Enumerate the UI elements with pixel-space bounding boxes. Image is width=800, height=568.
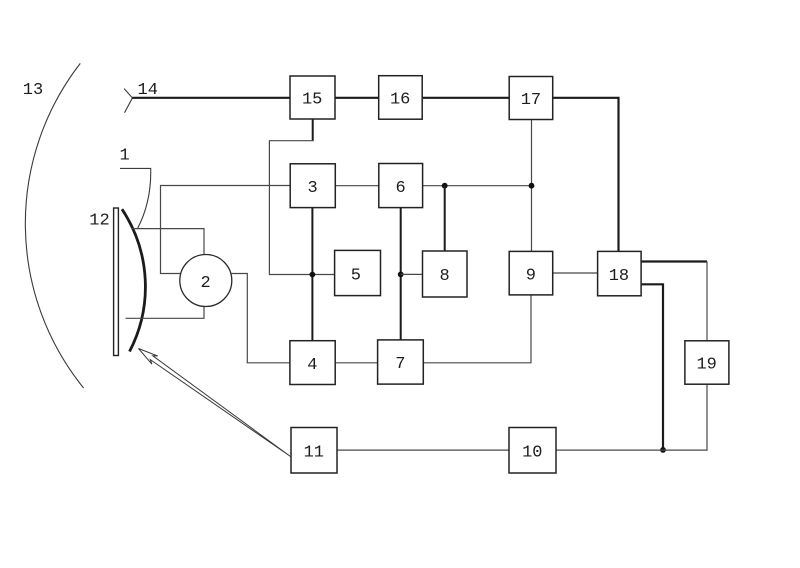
svg-text:4: 4: [307, 356, 317, 375]
svg-text:12: 12: [89, 212, 109, 231]
block 9: [509, 251, 553, 295]
leader line for label 1: [120, 168, 151, 228]
antenna symbol 14: [124, 89, 132, 113]
wire block 3 to block 6: [335, 185, 379, 187]
wire antenna to block 15 (thick): [132, 97, 290, 99]
svg-text:18: 18: [609, 267, 629, 286]
block 18: [598, 251, 642, 295]
svg-text:1: 1: [120, 147, 130, 166]
block 16: [379, 76, 423, 120]
node B dot: [398, 272, 404, 278]
arc 13 (dish reflector): [25, 63, 83, 388]
wire block 16 to block 17 (thick): [422, 97, 509, 99]
block 17: [509, 77, 553, 120]
wire circle 2 to block 4: [231, 274, 290, 363]
wire block 4 to block 7: [335, 362, 377, 364]
wire block 15 to node A via left detour: [269, 141, 334, 275]
svg-text:3: 3: [307, 179, 317, 198]
circle element 2: [180, 255, 232, 307]
wire block 15 bottom stub (thick): [312, 119, 314, 141]
node A dot: [310, 272, 316, 278]
block 15: [290, 76, 335, 119]
svg-text:13: 13: [23, 81, 43, 100]
block 11: [291, 428, 337, 474]
lens 12 flat plate: [114, 208, 119, 356]
wire node C to block 8 top (thick): [444, 186, 446, 251]
wire lens top tap to circle 2 top: [132, 229, 204, 255]
node D dot: [529, 183, 535, 189]
wire block 19 bottom to bottom bus: [556, 384, 707, 450]
wire block 3 to block 4 vertical (thick): [311, 208, 313, 341]
block 10: [509, 428, 556, 474]
svg-text:15: 15: [302, 91, 322, 110]
wire lens to block 3: [161, 186, 291, 274]
svg-text:19: 19: [696, 356, 716, 375]
wire node B to block 8 left: [401, 273, 423, 275]
svg-text:17: 17: [521, 91, 541, 110]
label 1: [120, 147, 130, 166]
wire block 6 to block 7 vertical (thick): [400, 208, 402, 340]
svg-text:8: 8: [439, 267, 449, 286]
svg-text:10: 10: [522, 443, 542, 462]
lens 12 convex surface (thick arc): [122, 209, 145, 351]
wire block 17 to block 9 vertical: [531, 120, 533, 252]
block 5: [335, 250, 381, 295]
pointer arrow from block 11 to lens: [139, 349, 291, 457]
wire block 18 lower output down to node E (thick): [641, 284, 663, 450]
node E dot: [660, 447, 666, 453]
block 4: [290, 341, 335, 385]
svg-text:11: 11: [304, 443, 324, 462]
svg-text:6: 6: [395, 179, 405, 198]
wire block 17 to block 18 top (thick): [553, 98, 619, 252]
node C dot: [442, 183, 448, 189]
wire block 10 to block 11: [337, 449, 509, 451]
wire block 9 to block 18: [553, 272, 598, 274]
wire block 18 to block 19 top (thick then thin): [641, 262, 707, 341]
block 19: [685, 341, 729, 384]
svg-text:7: 7: [395, 355, 405, 374]
svg-text:5: 5: [351, 266, 361, 285]
wire block 6 to node D: [423, 185, 532, 187]
svg-text:16: 16: [390, 91, 410, 110]
label 14: [138, 81, 158, 100]
block 8: [423, 251, 468, 297]
wire block 7 to block 9 bottom: [423, 295, 531, 363]
block 6: [379, 164, 423, 208]
label 13: [23, 81, 43, 100]
block 3: [290, 164, 335, 208]
wire lens bottom tap to circle 2 bottom: [126, 307, 205, 319]
svg-text:2: 2: [200, 274, 210, 293]
wire block 15 to block 16 (thick): [335, 97, 379, 99]
block 7: [378, 340, 424, 384]
label 12: [89, 212, 109, 231]
svg-text:9: 9: [526, 266, 536, 285]
